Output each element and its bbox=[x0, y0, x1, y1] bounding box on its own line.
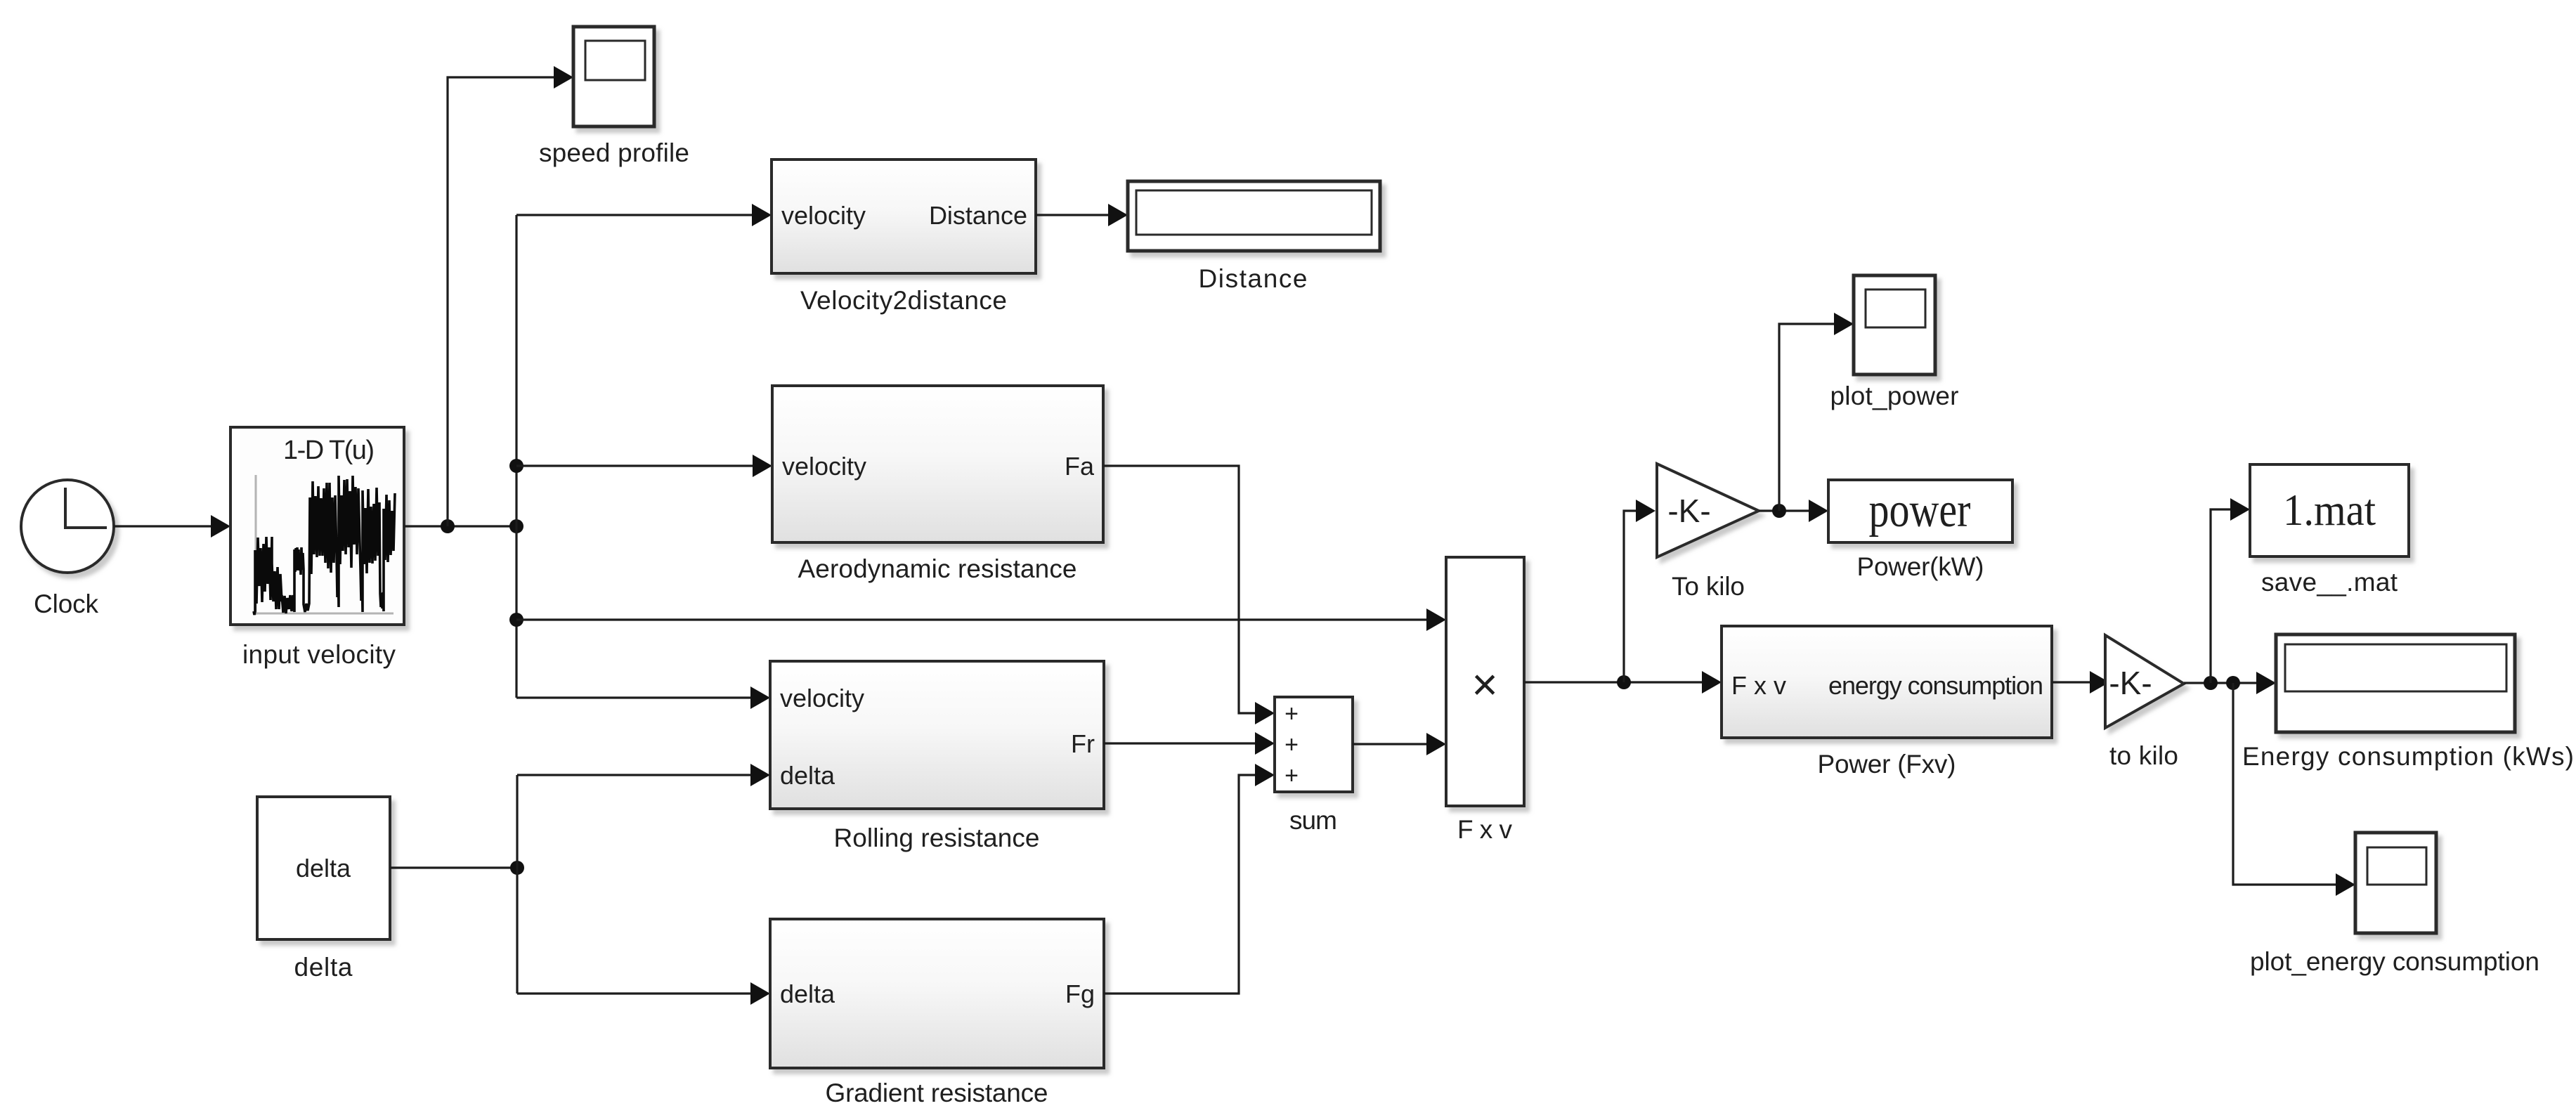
svg-text:Distance: Distance bbox=[1199, 264, 1308, 293]
svg-text:Velocity2distance: Velocity2distance bbox=[800, 286, 1007, 315]
subsystem Rolling resistance bbox=[770, 661, 1104, 809]
wire to kilo to energy display bbox=[2184, 672, 2276, 694]
svg-text:Power (Fxv): Power (Fxv) bbox=[1818, 750, 1956, 779]
svg-text:Energy consumption (kWs): Energy consumption (kWs) bbox=[2242, 742, 2574, 771]
wire to rolling delta bbox=[517, 764, 770, 786]
svg-text:To kilo: To kilo bbox=[1672, 572, 1745, 601]
svg-text:Fg: Fg bbox=[1065, 979, 1095, 1008]
svg-text:Rolling resistance: Rolling resistance bbox=[834, 823, 1040, 852]
wire gain to power display bbox=[1759, 500, 1828, 522]
svg-text:to kilo: to kilo bbox=[2109, 741, 2178, 770]
wire product output to Power Fxv bbox=[1524, 671, 1722, 694]
svg-text:delta: delta bbox=[780, 979, 835, 1008]
svg-text:Clock: Clock bbox=[34, 590, 99, 618]
svg-text:delta: delta bbox=[294, 953, 353, 982]
svg-text:Distance: Distance bbox=[929, 201, 1027, 230]
svg-text:-K-: -K- bbox=[2109, 665, 2152, 701]
wire down to plot_energy bbox=[2233, 683, 2355, 896]
wire to rolling velocity bbox=[516, 686, 770, 709]
svg-text:plot_power: plot_power bbox=[1830, 382, 1959, 410]
wire Fr to sum bbox=[1104, 732, 1275, 755]
svg-text:power: power bbox=[1869, 483, 1971, 538]
svg-text:delta: delta bbox=[780, 761, 835, 790]
subsystem Velocity2distance bbox=[772, 159, 1036, 273]
svg-text:save__.mat: save__.mat bbox=[2261, 568, 2398, 597]
svg-text:Fa: Fa bbox=[1065, 452, 1095, 481]
junction node to 1.mat bbox=[2204, 676, 2218, 690]
gain To kilo bbox=[1657, 464, 1759, 557]
svg-text:delta: delta bbox=[296, 854, 351, 883]
junction node product output bbox=[1617, 675, 1631, 689]
scope plot_power bbox=[1854, 275, 1935, 375]
svg-text:speed profile: speed profile bbox=[539, 138, 689, 167]
junction node main trunk bbox=[509, 519, 523, 533]
wire long to F x v product bbox=[516, 608, 1446, 631]
junction node to plot_energy bbox=[2226, 676, 2240, 690]
constant block delta bbox=[257, 797, 390, 939]
wire up to To kilo gain bbox=[1624, 500, 1655, 682]
sum block bbox=[1275, 697, 1353, 792]
wire velocity trunk vertical bbox=[515, 215, 517, 698]
junction node to product bbox=[509, 613, 523, 627]
svg-text:Power(kW): Power(kW) bbox=[1857, 552, 1984, 581]
svg-text:+: + bbox=[1284, 701, 1299, 727]
wire input velocity output bbox=[404, 525, 516, 527]
svg-text:Fr: Fr bbox=[1071, 729, 1095, 758]
junction node to speed profile bbox=[441, 519, 455, 533]
svg-text:input velocity: input velocity bbox=[242, 640, 396, 669]
svg-text:energy consumption: energy consumption bbox=[1828, 671, 2043, 700]
svg-text:velocity: velocity bbox=[781, 201, 866, 230]
display Distance bbox=[1128, 181, 1380, 251]
wire to gradient delta bbox=[517, 982, 770, 1005]
subsystem Power (Fxv) bbox=[1722, 626, 2052, 738]
display power Power(kW) bbox=[1828, 480, 2012, 542]
svg-text:velocity: velocity bbox=[780, 684, 864, 712]
wire Power Fxv to to kilo bbox=[2052, 671, 2109, 694]
lookup table block input velocity 1-D T(u) bbox=[230, 427, 404, 625]
svg-text:Gradient resistance: Gradient resistance bbox=[826, 1079, 1048, 1107]
wire up to plot_power bbox=[1779, 313, 1854, 511]
wire delta trunk vertical bbox=[516, 775, 518, 994]
clock block bbox=[21, 480, 114, 573]
wire Fg to sum bbox=[1104, 764, 1275, 994]
svg-text:+: + bbox=[1284, 731, 1299, 758]
svg-text:F x v: F x v bbox=[1457, 815, 1513, 844]
wire clock to input velocity bbox=[114, 515, 230, 538]
wire sum to product bbox=[1353, 733, 1446, 755]
svg-text:velocity: velocity bbox=[782, 452, 866, 481]
scope speed profile bbox=[573, 27, 654, 126]
svg-text:plot_energy consumption: plot_energy consumption bbox=[2250, 947, 2539, 976]
to file block 1.mat bbox=[2250, 464, 2409, 556]
wire Fa to sum bbox=[1103, 466, 1275, 724]
product block F x v bbox=[1446, 557, 1524, 806]
junction node after To kilo bbox=[1772, 504, 1786, 518]
svg-text:F x v: F x v bbox=[1731, 671, 1786, 700]
svg-text:+: + bbox=[1284, 762, 1299, 789]
wire Velocity2distance to Distance display bbox=[1036, 204, 1128, 226]
wire delta output bbox=[390, 866, 517, 868]
wire to speed profile scope bbox=[448, 66, 573, 526]
svg-text:1-D T(u): 1-D T(u) bbox=[283, 436, 375, 465]
svg-text:sum: sum bbox=[1289, 806, 1337, 835]
svg-text:×: × bbox=[1471, 659, 1497, 710]
svg-text:1.mat: 1.mat bbox=[2283, 485, 2376, 535]
svg-text:Aerodynamic resistance: Aerodynamic resistance bbox=[798, 554, 1077, 583]
scope plot_energy bbox=[2355, 833, 2436, 933]
junction node to aerodynamic bbox=[509, 459, 523, 473]
wire to Velocity2distance bbox=[516, 204, 772, 226]
gain to kilo bbox=[2105, 635, 2184, 728]
wire up to 1.mat bbox=[2211, 498, 2250, 683]
junction node delta bbox=[510, 861, 524, 875]
svg-text:-K-: -K- bbox=[1667, 493, 1710, 529]
display Energy consumption (kWs) bbox=[2276, 634, 2515, 732]
subsystem Gradient resistance bbox=[770, 919, 1104, 1068]
subsystem Aerodynamic resistance bbox=[772, 386, 1103, 542]
wire to aerodynamic resistance bbox=[516, 455, 772, 477]
